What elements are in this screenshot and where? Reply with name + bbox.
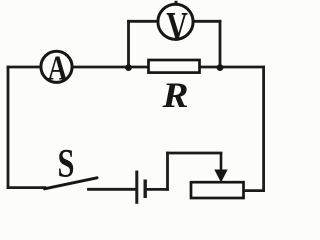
svg-text:R: R — [161, 75, 188, 115]
node junction dot right — [217, 64, 224, 71]
node junction dot left — [125, 64, 132, 71]
wire slider top horizontal — [168, 152, 222, 155]
ammeter A1 circle — [41, 51, 72, 82]
rheostat slider arrow shaft — [220, 153, 223, 172]
battery short plate — [143, 180, 146, 199]
wire right vertical — [262, 67, 265, 191]
svg-text:A: A — [48, 49, 68, 88]
wire top-left from left corner to ammeter — [8, 66, 40, 69]
battery long plate — [135, 171, 138, 204]
wire rheostat right terminal to right wire — [243, 189, 264, 192]
wire resistor right stub to node — [199, 66, 220, 69]
rheostat slider arrowhead — [214, 170, 227, 183]
wire voltmeter branch left vertical — [127, 21, 130, 67]
wire ammeter to node A-left — [74, 66, 150, 69]
switch S blade — [45, 178, 98, 189]
svg-text:V: V — [166, 3, 188, 49]
wire node to top-right corner — [220, 66, 264, 69]
wire voltmeter branch right horizontal — [194, 20, 220, 23]
wire bottom-left to switch — [8, 186, 45, 189]
wire switch contact to battery — [89, 188, 136, 191]
wire riser up from battery line — [166, 153, 169, 189]
wire battery to riser corner — [145, 188, 167, 191]
resistor R body — [149, 60, 200, 73]
rheostat body — [191, 182, 244, 198]
voltmeter top nub artifact — [175, 1, 178, 4]
wire voltmeter branch left horizontal — [129, 20, 158, 23]
voltmeter V circle — [158, 4, 193, 39]
wire left vertical — [7, 67, 10, 188]
svg-text:S: S — [58, 141, 75, 186]
wire voltmeter branch right vertical — [219, 21, 222, 67]
